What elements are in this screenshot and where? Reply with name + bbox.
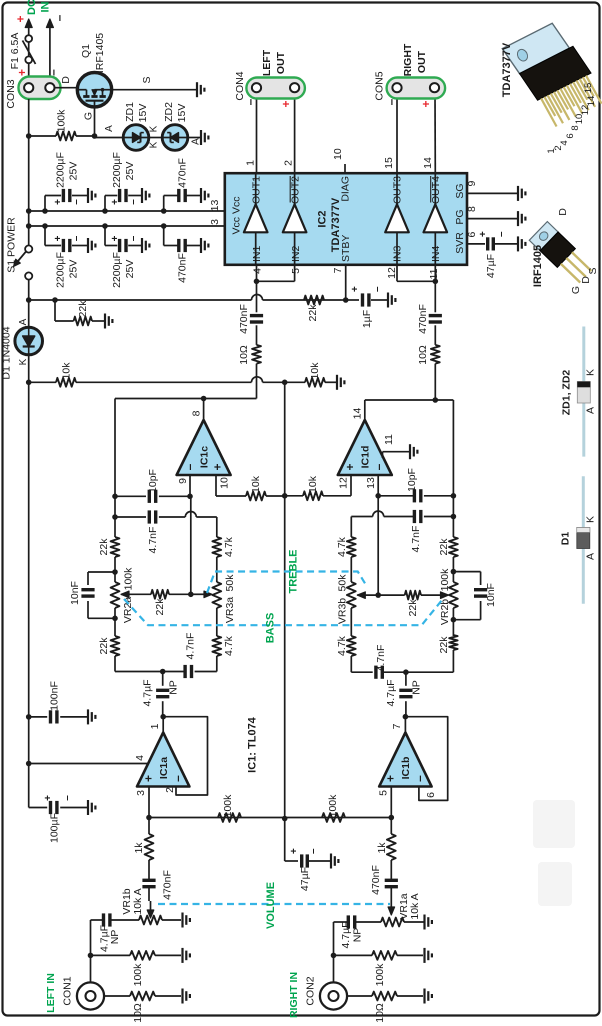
- wire IC1c pin 10 stub: [216, 475, 246, 496]
- label LEFT IN: [45, 973, 57, 1013]
- wire 22k to VR2b: [451, 557, 457, 582]
- svg-text:14: 14: [422, 157, 434, 169]
- svg-text:K: K: [149, 141, 160, 148]
- label pin 1: [149, 723, 161, 729]
- svg-text:IC2: IC2: [317, 210, 329, 227]
- svg-text:4.7µF: 4.7µF: [340, 921, 352, 948]
- wire ZD1 to ZD2: [148, 137, 163, 139]
- wire IC1a feedback box: [163, 717, 207, 795]
- ground VR1b: [183, 913, 190, 928]
- svg-text:SG: SG: [454, 183, 466, 198]
- svg-text:6: 6: [425, 792, 437, 798]
- svg-text:10k: 10k: [250, 475, 262, 493]
- resistor 22k ch1 top: [111, 537, 120, 557]
- label 22k stby series: [307, 304, 319, 322]
- label IC1a: [158, 757, 170, 779]
- label STBY: [340, 235, 352, 262]
- svg-text:10Ω: 10Ω: [238, 345, 250, 365]
- svg-text:100nF: 100nF: [49, 681, 61, 711]
- label IN4: [430, 246, 442, 263]
- wire DIAG stub: [344, 164, 346, 173]
- label F1 6.5A: [9, 33, 21, 70]
- label ZD2: [163, 102, 175, 122]
- label CON5: [374, 71, 386, 100]
- capacitor 100nF supply: [26, 710, 87, 723]
- svg-text:13: 13: [209, 200, 221, 212]
- svg-text:–: –: [372, 463, 386, 470]
- label TDA7377V package: [501, 42, 513, 97]
- label IC1c minus: [183, 463, 197, 470]
- label VR3b: [337, 598, 349, 624]
- label Q1 G: [83, 112, 95, 120]
- label RIGHT IN: [288, 972, 300, 1018]
- svg-text:–: –: [243, 98, 257, 105]
- capacitor C6 470nF bottom: [161, 223, 209, 253]
- rail Vcc13 vertical: [29, 210, 225, 212]
- capacitor 4.7uF NP ch2 in: [334, 915, 355, 992]
- capacitor 4.7nF ch1 lower: [160, 665, 192, 678]
- wire IC1d output pin 14: [364, 400, 366, 421]
- svg-text:A: A: [585, 407, 597, 414]
- label 10pF ch2: [406, 468, 418, 492]
- svg-text:5: 5: [290, 268, 302, 274]
- op-amp IC1a: [137, 733, 189, 787]
- label pin 7: [332, 267, 344, 273]
- svg-text:11: 11: [428, 268, 440, 279]
- ground 100uF: [88, 800, 95, 815]
- label C5 470nF: [177, 158, 189, 188]
- svg-text:10k: 10k: [307, 475, 319, 493]
- svg-text:IN3: IN3: [392, 246, 404, 263]
- label D1 1N4004: [1, 326, 13, 379]
- label TDA7377V: [330, 197, 342, 252]
- svg-text:A: A: [104, 125, 115, 132]
- capacitor 4.7uF NP ch1 in: [91, 913, 110, 992]
- ground 22k stby: [105, 314, 112, 329]
- label 10ohm ch2 in: [374, 1003, 386, 1023]
- ground 100k ch1 in: [183, 948, 190, 963]
- wire IC1a pin 3 stub: [146, 787, 152, 821]
- label package S pin: [587, 267, 599, 274]
- label 4.7k ch1 top: [223, 536, 235, 557]
- label C3 2200uF: [55, 252, 67, 288]
- svg-text:A: A: [585, 553, 597, 560]
- svg-text:IN4: IN4: [430, 246, 442, 263]
- resistor 22k ch2 top: [449, 537, 458, 557]
- wire VR2a to 22k bottom: [112, 608, 118, 636]
- svg-text:–: –: [71, 199, 82, 205]
- label 100k ch1 bias: [222, 794, 234, 818]
- label IN3: [392, 246, 404, 263]
- label 4.7nF ch2 upper: [410, 526, 422, 553]
- label IRF1405 package: [532, 245, 544, 287]
- wiper wire VR3b VR2b: [357, 591, 448, 600]
- svg-text:10k A: 10k A: [132, 888, 144, 914]
- wire VR1a top to cap: [355, 921, 381, 923]
- wire ch1 treble branch corner: [216, 517, 218, 537]
- label 1k ch1: [133, 842, 145, 854]
- svg-text:8: 8: [570, 125, 581, 130]
- label D1 A: [18, 318, 29, 325]
- wire 4.7k to VR3a: [216, 557, 218, 582]
- svg-text:Vcc Vcc: Vcc Vcc: [231, 197, 243, 235]
- label pin 10: [332, 148, 344, 160]
- wire ch2 treble branch corner: [350, 517, 352, 538]
- wire IC1c output pin 8: [201, 396, 207, 420]
- resistor 100k ch2 in: [331, 951, 423, 960]
- amp A1 in IC2: [244, 173, 268, 265]
- svg-text:12: 12: [338, 477, 350, 489]
- svg-text:10k: 10k: [61, 362, 73, 380]
- resistor 10ohm ch1: [252, 345, 261, 364]
- resistor 10ohm ch2: [431, 345, 440, 364]
- label 4.7uF ch1: [142, 679, 154, 706]
- svg-text:OUT4: OUT4: [430, 176, 442, 204]
- svg-text:470nF: 470nF: [177, 253, 189, 283]
- label pin 2: [164, 787, 176, 793]
- label C1 25V: [68, 162, 80, 181]
- svg-text:1k: 1k: [376, 842, 388, 854]
- label Q1 S: [141, 76, 153, 83]
- svg-text:D: D: [60, 76, 72, 84]
- svg-text:LEFT: LEFT: [261, 49, 273, 76]
- svg-text:IRF1405: IRF1405: [532, 245, 544, 287]
- label IC1d: [360, 446, 372, 469]
- label 4.7k ch2 bottom: [336, 635, 348, 656]
- label 100k ch1 in: [132, 963, 144, 987]
- node DC IN - input arrow: [46, 14, 66, 88]
- svg-text:6: 6: [565, 133, 576, 138]
- label Q1: [80, 44, 92, 58]
- svg-text:+: +: [343, 463, 357, 470]
- resistor 4.7k ch2 top: [347, 537, 356, 557]
- label pin 3: [209, 219, 221, 225]
- svg-text:–: –: [128, 199, 139, 205]
- label IC1 TL074: [247, 716, 259, 773]
- label ZD2 K: [149, 141, 160, 148]
- ground 10ohm ch1 in: [183, 989, 190, 1004]
- svg-text:22k: 22k: [407, 599, 419, 617]
- label CON4 minus: [243, 98, 257, 105]
- svg-text:IN1: IN1: [251, 246, 263, 263]
- label C4 25V: [124, 260, 136, 279]
- svg-text:10Ω: 10Ω: [132, 1003, 144, 1023]
- potentiometer VR3a 50k: [212, 582, 221, 608]
- wire IC1a pin 4 supply: [26, 761, 148, 767]
- svg-text:+: +: [110, 235, 121, 241]
- svg-text:A: A: [18, 318, 29, 325]
- svg-text:IC1: TL074: IC1: TL074: [247, 716, 259, 773]
- node DC IN + input arrow: [14, 15, 33, 88]
- svg-text:+: +: [142, 775, 156, 782]
- label pin 14: [422, 157, 434, 169]
- label IC1c: [199, 446, 211, 468]
- svg-text:470nF: 470nF: [238, 304, 250, 334]
- wire ch2 bottom corner: [351, 656, 372, 672]
- connector CON1: [77, 982, 104, 1009]
- label pin 4: [252, 268, 264, 274]
- amp A4 in IC2: [424, 173, 448, 265]
- label 100k ch2 in: [374, 963, 386, 987]
- svg-text:100k: 100k: [222, 794, 234, 818]
- wire IC1b feedback box: [405, 717, 447, 801]
- label CON5 minus: [384, 98, 398, 105]
- capacitor 1uF stby: [346, 286, 387, 307]
- svg-text:14: 14: [586, 96, 597, 107]
- label D1 axial A: [585, 553, 597, 560]
- svg-text:NP: NP: [411, 680, 423, 695]
- label pin 4: [134, 755, 146, 761]
- label 1uF: [361, 310, 373, 328]
- label OUT1: [251, 176, 263, 204]
- label IC2: [317, 210, 329, 227]
- svg-text:K: K: [585, 516, 597, 523]
- svg-text:22k: 22k: [154, 598, 166, 616]
- label package G: [570, 286, 582, 294]
- svg-text:SVR: SVR: [454, 232, 466, 254]
- capacitor 47uF SVR: [478, 231, 517, 251]
- label 10k IC1c bias: [250, 475, 262, 493]
- label 10ohm ch1: [238, 345, 250, 365]
- svg-text:4.7k: 4.7k: [336, 635, 348, 656]
- wire VR1b top to cap: [110, 919, 139, 921]
- svg-text:100k: 100k: [327, 794, 339, 818]
- svg-text:50k: 50k: [224, 574, 236, 592]
- resistor 4.7k ch1 top: [212, 537, 221, 557]
- capacitor 10pF ch1: [112, 490, 190, 503]
- svg-text:–: –: [384, 98, 398, 105]
- capacitor C1 2200uF 25V: [42, 188, 95, 214]
- svg-text:IC1b: IC1b: [400, 757, 412, 780]
- ground VR1a: [425, 915, 432, 930]
- svg-text:–: –: [413, 775, 427, 782]
- label C2 2200uF: [111, 152, 123, 188]
- svg-text:14: 14: [352, 408, 364, 420]
- svg-text:VR3b: VR3b: [337, 598, 349, 624]
- resistor 10ohm ch1 in: [104, 992, 181, 1001]
- svg-text:IN2: IN2: [290, 246, 302, 263]
- label ZD1 K: [149, 125, 160, 132]
- label pin 15: [383, 157, 395, 169]
- svg-text:4.7nF: 4.7nF: [185, 633, 197, 660]
- svg-text:100k: 100k: [56, 109, 68, 133]
- connector CON4: [246, 78, 305, 99]
- wire VR2b to 22k bottom: [451, 608, 457, 636]
- label C1 2200uF: [55, 152, 67, 188]
- label Vcc Vcc: [231, 197, 243, 235]
- svg-text:1k: 1k: [133, 842, 145, 854]
- label ZD2 15V: [176, 104, 188, 123]
- svg-text:+: +: [53, 235, 64, 241]
- resistor 10k bias lower: [285, 378, 336, 387]
- svg-text:OUT2: OUT2: [290, 176, 302, 204]
- svg-text:22k: 22k: [307, 304, 319, 322]
- label OUT4: [430, 176, 442, 204]
- label pin 10: [219, 477, 231, 489]
- svg-text:47µF: 47µF: [485, 254, 497, 278]
- svg-text:10: 10: [219, 477, 231, 489]
- wire ch2 22k corner: [406, 650, 454, 672]
- svg-text:15: 15: [583, 83, 594, 94]
- svg-text:+: +: [478, 231, 489, 237]
- svg-text:–: –: [183, 463, 197, 470]
- svg-text:1µF: 1µF: [361, 310, 373, 328]
- svg-text:NP: NP: [168, 680, 180, 695]
- resistor 22k ch2 bottom: [449, 635, 457, 650]
- svg-text:NP: NP: [109, 930, 121, 945]
- label 4.7k ch1 bottom: [223, 635, 235, 656]
- label pin 6: [425, 792, 437, 798]
- svg-text:OUT3: OUT3: [392, 176, 404, 204]
- svg-text:TDA7377V: TDA7377V: [501, 42, 513, 97]
- dashed VOLUME line: [158, 903, 390, 905]
- svg-text:25V: 25V: [68, 260, 80, 279]
- svg-text:100k: 100k: [132, 963, 144, 987]
- resistor 10ohm ch2 in: [347, 992, 423, 1001]
- diode D1 1N4004: [15, 327, 43, 355]
- connector CON5: [387, 78, 446, 99]
- svg-text:CON1: CON1: [62, 976, 74, 1005]
- svg-text:4.7nF: 4.7nF: [147, 527, 159, 554]
- svg-text:ZD1, ZD2: ZD1, ZD2: [561, 370, 573, 416]
- label OUT3: [392, 176, 404, 204]
- label 10nF ch2: [485, 583, 497, 607]
- wiper wire VR2a VR3a: [121, 590, 212, 599]
- label RIGHT: [402, 43, 414, 76]
- svg-text:470nF: 470nF: [177, 158, 189, 188]
- wire ch2 feedback rail: [452, 400, 454, 537]
- decorative watermark: [533, 800, 575, 906]
- svg-text:+: +: [279, 100, 293, 107]
- wire OUT2 to CON4: [294, 93, 296, 173]
- svg-text:VOLUME: VOLUME: [265, 882, 277, 929]
- svg-text:–: –: [62, 795, 73, 801]
- svg-text:470nF: 470nF: [417, 304, 429, 334]
- svg-text:8: 8: [466, 206, 478, 212]
- op-amp IC1c: [177, 420, 231, 475]
- label IC1d minus: [372, 463, 386, 470]
- label C6 470nF: [177, 253, 189, 283]
- label IC1b plus: [384, 775, 398, 782]
- wire IC1b pin 5 stub: [389, 787, 395, 821]
- label 470nF ch2 coupling: [417, 304, 429, 334]
- wire 22k bottom corner: [115, 656, 163, 672]
- label IC1a minus: [171, 775, 185, 782]
- svg-text:10pF: 10pF: [147, 469, 159, 493]
- svg-text:STBY: STBY: [340, 235, 352, 262]
- connector CON3: [19, 77, 61, 100]
- label 4.7nF ch1 lower: [185, 633, 197, 660]
- ground SG: [518, 186, 525, 201]
- svg-text:4.7k: 4.7k: [223, 536, 235, 557]
- svg-text:470nF: 470nF: [370, 865, 382, 895]
- label LEFT: [261, 49, 273, 76]
- capacitor 10nF ch2: [453, 572, 487, 620]
- wire stby junction: [341, 297, 349, 303]
- label NP ch2: [411, 680, 423, 695]
- wire IC1a output pin 1: [160, 714, 166, 733]
- label pin 3: [135, 790, 147, 796]
- label 22k ch1 bottom: [98, 637, 110, 655]
- ground 10k bias: [337, 375, 344, 390]
- resistor 4.7k ch1 bottom: [212, 636, 221, 656]
- label 22k stby pulldown: [77, 300, 89, 318]
- svg-text:25V: 25V: [124, 260, 136, 279]
- label 4.7k ch2 top: [336, 536, 348, 557]
- svg-text:7: 7: [391, 723, 403, 729]
- ground 10ohm ch2 in: [425, 989, 432, 1004]
- label OUT2: [290, 176, 302, 204]
- label ZD axial A: [585, 407, 597, 414]
- svg-text:S: S: [587, 267, 599, 274]
- svg-text:4.7nF: 4.7nF: [375, 645, 387, 672]
- wire V+ long rail left: [28, 382, 30, 807]
- label 10k supply: [61, 362, 73, 380]
- label VR2b 100k: [439, 568, 451, 592]
- label SVR: [454, 232, 466, 254]
- svg-text:CON2: CON2: [305, 976, 317, 1005]
- label RIGHT OUT: [416, 50, 428, 73]
- label IRF1405: [94, 33, 106, 73]
- svg-text:OUT: OUT: [275, 51, 287, 74]
- svg-text:D1: D1: [560, 532, 572, 546]
- label 47uF SVR: [485, 254, 497, 278]
- svg-text:15: 15: [383, 157, 395, 169]
- svg-text:F1 6.5A: F1 6.5A: [9, 33, 21, 70]
- label C3 25V: [68, 260, 80, 279]
- label pin 14: [352, 408, 364, 420]
- label 47uF bias: [299, 867, 311, 891]
- label NP ch2 in: [352, 928, 364, 943]
- label LEFT OUT: [275, 51, 287, 74]
- svg-text:4: 4: [134, 755, 146, 761]
- svg-text:–: –: [171, 775, 185, 782]
- svg-text:22k: 22k: [98, 637, 110, 655]
- svg-text:4.7k: 4.7k: [336, 536, 348, 557]
- label 4.7uF ch2 in: [340, 921, 352, 948]
- svg-text:–: –: [128, 235, 139, 241]
- svg-text:1: 1: [149, 723, 161, 729]
- svg-text:11: 11: [383, 434, 395, 445]
- label 22k wiper ch2: [407, 599, 419, 617]
- connector CON2: [320, 982, 347, 1009]
- label NP ch1 in: [109, 930, 121, 945]
- svg-text:9: 9: [177, 478, 189, 484]
- wire STBY to IC2: [345, 265, 347, 300]
- label pin 1: [245, 160, 257, 166]
- label VR3a: [224, 597, 236, 623]
- wire SVR to cap: [467, 243, 485, 245]
- potentiometer VR1b: [139, 916, 181, 925]
- svg-text:CON4: CON4: [234, 71, 246, 100]
- label IN2: [290, 246, 302, 263]
- wire ch1 pin9 to wiper junction: [188, 496, 194, 597]
- svg-text:CON5: CON5: [374, 71, 386, 100]
- svg-text:+: +: [110, 199, 121, 205]
- svg-text:10pF: 10pF: [406, 468, 418, 492]
- resistor 1k ch1: [145, 818, 154, 881]
- wire IC1c pin 9 stub: [187, 475, 193, 499]
- svg-text:5: 5: [378, 790, 390, 796]
- label pin 2: [283, 160, 295, 166]
- diode ZD1 15V: [123, 125, 149, 151]
- svg-text:10k A: 10k A: [409, 893, 421, 919]
- label 100k gate: [56, 109, 68, 133]
- wire IC1d pin 13 stub: [375, 475, 381, 499]
- label Q1 D: [60, 76, 72, 84]
- package drawing TDA7377V multiwatt15: [502, 18, 602, 133]
- wire IC1d pin 12 stub: [323, 475, 351, 496]
